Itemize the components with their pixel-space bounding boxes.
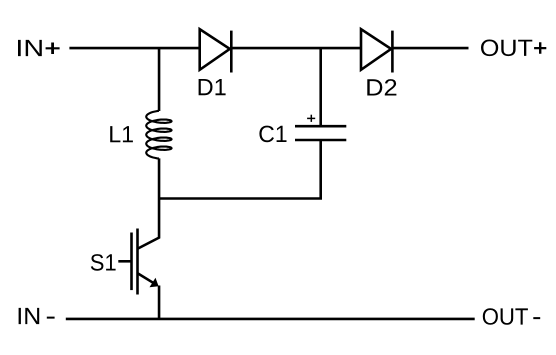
diode D2 cathode bar — [391, 31, 394, 73]
capacitor C1 polarity plus sign — [307, 115, 315, 122]
wire from L1 bottom to S1 collector bend and diagonal into S1 body — [138, 158, 159, 248]
diode D1 cathode bar — [230, 31, 233, 73]
label L1 — [110, 126, 133, 142]
transistor S1 gate bar — [130, 233, 133, 291]
diode D2 triangle — [361, 29, 391, 70]
label IN+ — [18, 40, 60, 56]
transistor S1 gate lead wire — [118, 260, 131, 263]
label C1 — [259, 126, 286, 143]
label OUT- — [483, 308, 540, 325]
label S1 — [91, 254, 116, 271]
wire top rail from D1 cathode to D2 anode — [231, 47, 361, 50]
label OUT+ — [481, 40, 546, 57]
diode D1 triangle — [200, 29, 230, 70]
inductor L1 coil — [146, 111, 171, 159]
wire vertical from top rail down to L1 top — [158, 48, 161, 111]
wire top rail from IN+ to D1 anode — [69, 47, 199, 50]
capacitor C1 top plate — [295, 125, 346, 128]
capacitor C1 bottom plate — [295, 139, 346, 142]
wire vertical from top rail junction down to C1 top plate — [319, 48, 322, 126]
transistor S1 body bar — [136, 229, 139, 295]
wire from S1 emitter arrow to bottom rail — [158, 286, 161, 319]
label D1 — [199, 79, 226, 95]
transistor S1 emitter arrowhead — [150, 278, 159, 288]
wire node link from C1 bottom branch down and left to L1/S1 branch — [159, 140, 321, 199]
transistor S1 emitter diagonal — [138, 274, 153, 283]
wire bottom rail from IN- to OUT- — [66, 318, 475, 321]
label IN- — [19, 308, 55, 324]
wire top rail from D2 cathode to OUT+ — [392, 47, 468, 50]
label D2 — [367, 79, 396, 95]
